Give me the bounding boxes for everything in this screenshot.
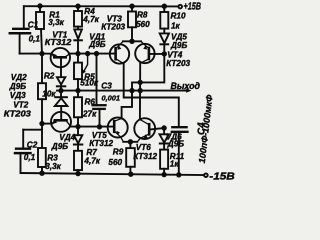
node B junction dot: [40, 122, 44, 126]
junction dot R8 top rail: [130, 4, 134, 8]
svg-text:3,3к: 3,3к: [48, 18, 64, 27]
diode VD2: [57, 67, 65, 90]
svg-text:R6: R6: [85, 98, 96, 107]
svg-text:4,7к: 4,7к: [82, 15, 99, 24]
junction dot R1 top rail: [38, 4, 42, 8]
junction dot VT6 base VD6: [162, 126, 166, 130]
diode VD3: [55, 91, 68, 113]
transistor VT3: [110, 42, 129, 64]
resistor R1: [36, 6, 44, 53]
svg-text:1к: 1к: [171, 21, 181, 30]
junction dot R9 bottom rail: [129, 172, 133, 176]
svg-text:VД2: VД2: [11, 73, 27, 82]
svg-text:КТ312: КТ312: [45, 38, 72, 47]
diode VD4: [74, 127, 82, 151]
capacitor C3: [93, 54, 106, 127]
transistor VT5: [108, 118, 128, 142]
junction dot R10 top rail: [163, 4, 167, 8]
junction dot VT6 collector line A: [138, 89, 142, 93]
junction dot VT4 collector net line A: [130, 89, 134, 93]
variable resistor R5: [74, 54, 88, 91]
junction dot R7 bottom rail: [76, 172, 80, 176]
junction dot C4 bottom rail: [177, 173, 181, 177]
resistor R11: [160, 150, 168, 175]
wire VT2 collector to VT5 base: [71, 126, 115, 128]
resistor R4: [74, 6, 82, 29]
svg-text:-15В: -15В: [209, 171, 235, 182]
svg-text:27к: 27к: [82, 110, 97, 119]
svg-text:R7: R7: [86, 148, 97, 157]
svg-text:Выход: Выход: [171, 81, 201, 91]
svg-text:0,001: 0,001: [102, 93, 121, 102]
diode VD6: [160, 128, 169, 150]
svg-text:560: 560: [108, 158, 122, 167]
svg-text:510к: 510к: [80, 78, 99, 87]
resistor R6: [74, 91, 82, 127]
junction dot VD1/R5 column: [76, 52, 80, 56]
svg-text:КТ203: КТ203: [166, 59, 190, 68]
wire VT3/VT4 emitters to R8: [123, 40, 141, 42]
junction dot C3 column: [95, 52, 99, 56]
svg-text:C2: C2: [27, 141, 38, 150]
resistor R2: [38, 54, 46, 124]
wire VT3 collector / line B to C4: [124, 64, 179, 127]
svg-text:Д9Б: Д9Б: [51, 142, 68, 151]
resistor R7: [74, 151, 82, 174]
svg-text:10к: 10к: [42, 89, 56, 98]
resistor R9: [126, 142, 135, 174]
junction dot R9 top: [129, 140, 133, 144]
svg-text:R9: R9: [113, 147, 124, 156]
capacitor C2: [15, 124, 42, 173]
transistor VT6: [134, 118, 164, 142]
wire node A to VT1 emitter: [42, 53, 51, 55]
wire VT4 collector down to VT6: [139, 63, 141, 119]
terminal +15V: [178, 5, 182, 9]
junction dot VT4 base VD5: [163, 52, 167, 56]
svg-text:0,1: 0,1: [29, 35, 41, 44]
wire C1 to node A: [20, 53, 42, 55]
svg-text:VТ6: VТ6: [136, 143, 151, 152]
svg-text:R10: R10: [171, 11, 186, 20]
svg-text:Д9Б: Д9Б: [167, 139, 184, 148]
svg-text:VД3: VД3: [10, 91, 26, 100]
svg-text:0,1: 0,1: [24, 153, 36, 162]
svg-text:1к: 1к: [170, 159, 180, 168]
svg-text:Д9Б: Д9Б: [88, 40, 105, 49]
transistor VT4: [135, 42, 164, 64]
resistor R10: [160, 6, 168, 33]
svg-text:4,7к: 4,7к: [83, 157, 100, 166]
node A junction dot: [40, 52, 44, 56]
junction dot R11 bottom rail: [162, 173, 166, 177]
wire -15V bottom rail: [21, 173, 205, 175]
svg-text:КТ203: КТ203: [4, 109, 32, 118]
diode VD5: [160, 33, 169, 54]
svg-text:R8: R8: [137, 11, 148, 20]
wire VT1 collector to VT3 base: [70, 53, 116, 55]
wire +15V top rail: [24, 5, 178, 7]
wire VD5 node down jog to VT5 collector: [122, 54, 165, 119]
junction dot R5/R6 line A: [76, 89, 80, 93]
svg-text:C1: C1: [28, 21, 39, 30]
junction dot VT4 collector cross line: [138, 81, 142, 85]
junction dot R5 wiper: [86, 52, 90, 56]
wire VT5/VT6 emitters to R9: [123, 141, 137, 143]
svg-text:3,3к: 3,3к: [45, 162, 61, 171]
svg-text:+15В: +15В: [184, 2, 202, 13]
svg-text:Д9Б: Д9Б: [170, 41, 187, 50]
transistor VT1: [51, 48, 70, 67]
junction dot R6/VD4: [76, 125, 80, 129]
resistor R8: [128, 6, 136, 41]
svg-text:560: 560: [136, 20, 150, 29]
diode VD1: [74, 29, 82, 53]
terminal -15V: [204, 173, 208, 177]
junction dot R3 bottom rail: [40, 171, 44, 175]
svg-text:VТ2: VТ2: [13, 101, 28, 110]
svg-text:VД4: VД4: [59, 133, 75, 142]
junction dot R4 top rail: [76, 4, 80, 8]
output arrowhead: [186, 88, 191, 92]
svg-text:C3: C3: [101, 81, 112, 90]
wire timing line A with output arrow: [57, 90, 188, 92]
junction dot R8 bottom: [130, 40, 134, 44]
wire node B to VT2 base: [42, 123, 52, 125]
junction dot C3 bottom: [98, 125, 102, 129]
svg-text:Д9Б: Д9Б: [9, 82, 26, 91]
svg-text:КТ203: КТ203: [101, 23, 125, 32]
svg-text:R2: R2: [44, 71, 55, 80]
capacitor C4: [172, 127, 188, 175]
junction dot diode chain line A: [59, 89, 63, 93]
svg-text:КТ312: КТ312: [133, 152, 157, 161]
transistor VT2: [51, 112, 71, 132]
capacitor C1: [10, 6, 30, 53]
resistor R3: [38, 130, 46, 174]
svg-text:КТ312: КТ312: [89, 139, 113, 148]
